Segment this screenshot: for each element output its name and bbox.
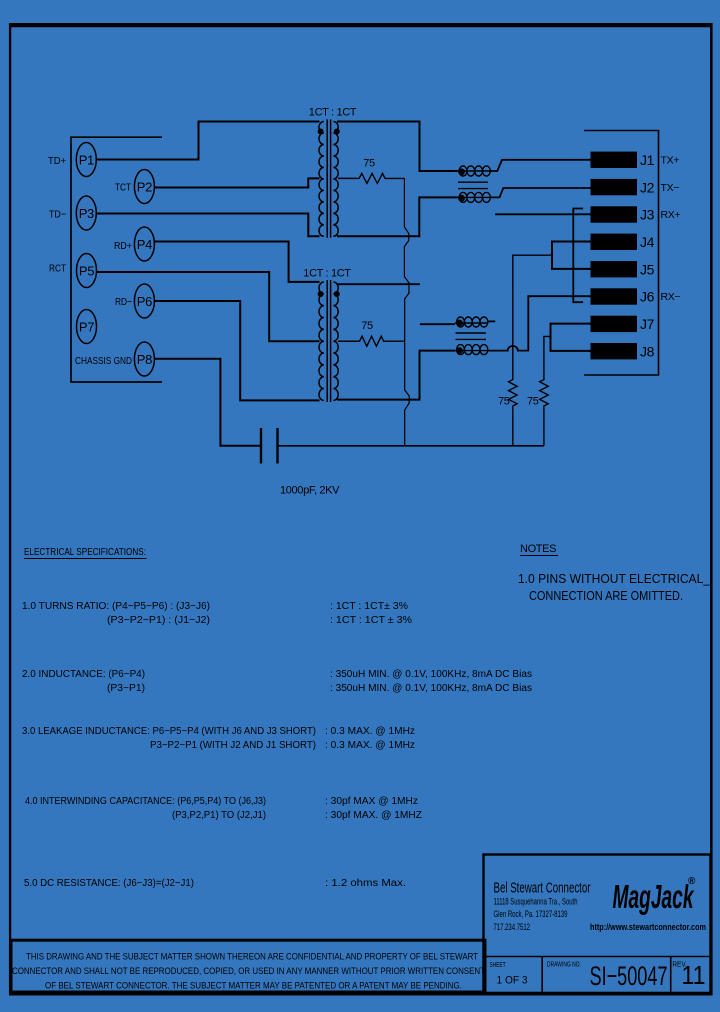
sheet label [490, 960, 528, 987]
phone [494, 922, 531, 932]
svg-text:TX−: TX− [661, 182, 680, 194]
svg-text:4.0 INTERWINDING CAPACITANCE:: 4.0 INTERWINDING CAPACITANCE: (P6,P5,P4)… [25, 796, 266, 807]
resistor R2 75 (J7/J8 termination) [527, 377, 548, 409]
svg-text:P8: P8 [137, 352, 152, 367]
svg-text:TX+: TX+ [661, 155, 680, 167]
logo MagJack [613, 876, 697, 915]
svg-text:Bel Stewart Connector: Bel Stewart Connector [494, 880, 591, 897]
transformer T2 label 1CT : 1CT [303, 268, 351, 280]
address line 2 [494, 909, 568, 919]
wire into choke CM2 top [420, 323, 455, 325]
svg-text:TD−: TD− [49, 209, 66, 221]
svg-text:3.0 LEAKAGE INDUCTANCE: P6−: 3.0 LEAKAGE INDUCTANCE: P6−P5−P4 (WITH J… [22, 726, 316, 737]
wire T2 secondary center tap to resistor [338, 340, 357, 342]
contact J4 [591, 234, 655, 250]
wire J4/J5 node to resistor R1 [513, 255, 552, 377]
svg-text:717.234.7512: 717.234.7512 [494, 922, 531, 932]
svg-text:DRAWING NO.: DRAWING NO. [547, 960, 581, 969]
pin P4 [134, 227, 154, 261]
svg-text:RD+: RD+ [114, 240, 132, 252]
svg-text:http://www.stewartconnector.co: http://www.stewartconnector.com [590, 922, 706, 933]
wire P3 to T1 primary bottom [96, 214, 319, 237]
svg-text:TCT: TCT [115, 182, 131, 194]
svg-text:CONNECTOR AND SHALL NOT BE REP: CONNECTOR AND SHALL NOT BE REPRODUCED, C… [12, 966, 485, 977]
svg-text:1CT : 1CT: 1CT : 1CT [309, 107, 357, 119]
wire P4 to T2 primary top [154, 242, 319, 282]
pin P5 [77, 254, 97, 288]
svg-text:11118 Susquehanna Tra., South: 11118 Susquehanna Tra., South [494, 897, 578, 907]
contact J3 [591, 206, 655, 222]
disclaimer box [11, 940, 485, 992]
svg-text:(P3−P1): (P3−P1) [107, 683, 145, 694]
svg-text:OF BEL STEWART CONNECTOR. THE: OF BEL STEWART CONNECTOR. THE SUBJECT MA… [45, 981, 462, 992]
label TCT [115, 182, 131, 194]
pin P1 [76, 143, 96, 177]
svg-text:ELECTRICAL SPECIFICATIONS:: ELECTRICAL SPECIFICATIONS: [24, 547, 146, 558]
svg-text:SI−50047: SI−50047 [590, 961, 668, 991]
choke CM1 [458, 166, 491, 202]
svg-text:75: 75 [361, 320, 373, 332]
svg-text:CHASSIS GND: CHASSIS GND [75, 355, 132, 367]
svg-text:J4: J4 [640, 234, 655, 250]
svg-text:J1: J1 [640, 152, 655, 168]
url [590, 922, 706, 933]
svg-text:2.0 INDUCTANCE: (P6−P4): 2.0 INDUCTANCE: (P6−P4) [22, 669, 145, 680]
svg-text:75: 75 [527, 396, 539, 408]
svg-text:1.0 PINS WITHOUT ELECTRICAL_: 1.0 PINS WITHOUT ELECTRICAL_ [518, 572, 711, 586]
svg-text:P3−P2−P1 (WITH J2 AND J1 SHORT: P3−P2−P1 (WITH J2 AND J1 SHORT) [150, 740, 316, 751]
label RX- [661, 291, 681, 303]
drawing no label [547, 960, 668, 992]
svg-text:P3: P3 [79, 206, 94, 221]
contact J7 [591, 316, 655, 332]
svg-text:1000pF, 2KV: 1000pF, 2KV [280, 485, 340, 497]
wire T1 secondary bottom to choke CM1 [337, 197, 458, 236]
svg-text:J7: J7 [640, 316, 655, 332]
svg-text:(P3−P2−P1) : (J1−J2): (P3−P2−P1) : (J1−J2) [107, 615, 210, 626]
transformer T1 label 1CT : 1CT [309, 107, 357, 119]
svg-text:1.0 TURNS RATIO: (P4−P5−P6) :: 1.0 TURNS RATIO: (P4−P5−P6) : (J3−J6) [22, 601, 210, 612]
spec 4.0 interwinding capacitance [25, 796, 422, 821]
note 1.0 [518, 572, 711, 603]
contact J5 [591, 261, 655, 277]
heading ELECTRICAL SPECIFICATIONS [24, 547, 147, 559]
svg-text:: 1CT : 1CT ± 3%: : 1CT : 1CT ± 3% [330, 615, 412, 626]
wire T1 secondary center tap to resistor [338, 177, 356, 179]
svg-text:P4: P4 [137, 237, 152, 252]
wire J3 [495, 213, 590, 215]
svg-text:P5: P5 [79, 264, 94, 279]
label RCT [49, 263, 66, 275]
heading NOTES [520, 543, 558, 556]
svg-text:RX−: RX− [661, 291, 681, 303]
wire T2 secondary top (open end) [337, 283, 420, 285]
svg-text:: 30pf MAX @ 1MHz: : 30pf MAX @ 1MHz [325, 796, 418, 807]
svg-text:RX+: RX+ [661, 209, 681, 221]
wire choke CM2 bottom to J6 (hop over vertical) [487, 296, 591, 350]
contact J1 [591, 152, 655, 168]
wire J7-J8 tie [551, 324, 591, 351]
pin P8 [134, 342, 154, 376]
svg-text:TD+: TD+ [48, 155, 66, 167]
pin P2 [134, 170, 154, 204]
wire J7/J8 node to resistor R2 [544, 336, 551, 377]
svg-text:THIS DRAWING AND THE SUBJECT M: THIS DRAWING AND THE SUBJECT MATTER SHOW… [26, 952, 478, 963]
svg-text:J3: J3 [640, 207, 655, 223]
svg-text:NOTES: NOTES [520, 543, 556, 555]
resistor R1 75 (J4/J5 termination) [498, 377, 517, 409]
pin P7 [77, 310, 97, 344]
label TD+ [48, 155, 66, 167]
resistor 75 (T2 termination) [357, 320, 385, 346]
svg-text:P2: P2 [137, 180, 152, 195]
wire choke CM1 top to J1 [490, 160, 591, 171]
svg-text:J8: J8 [640, 343, 655, 359]
wire T2 resistor to node V1 [383, 340, 405, 342]
svg-text:1CT : 1CT: 1CT : 1CT [303, 268, 351, 280]
wire node V1 vertical with jogs [404, 178, 409, 445]
svg-text:1 OF 3: 1 OF 3 [497, 975, 528, 987]
wire P8 to capacitor [154, 359, 260, 446]
transformer T2 [318, 280, 340, 402]
wire T1 resistor to node V1 [387, 177, 404, 179]
svg-text:: 350uH MIN. @ 0.1V, 100KHz,: : 350uH MIN. @ 0.1V, 100KHz, 8mA DC Bias [330, 683, 532, 694]
spec 5.0 dc resistance [24, 878, 406, 889]
wire hook J3/J6 vertical [573, 209, 583, 303]
svg-text:: 0.3 MAX. @ 1MHz: : 0.3 MAX. @ 1MHz [325, 740, 415, 751]
svg-text:®: ® [688, 876, 696, 887]
wire T2 secondary bottom to choke CM2 [337, 351, 455, 400]
transformer T1 [318, 119, 340, 237]
label RD+ [114, 240, 132, 252]
svg-text:: 30pf MAX. @ 1MHZ: : 30pf MAX. @ 1MHZ [325, 810, 422, 821]
svg-text:: 0.3 MAX. @ 1MHz: : 0.3 MAX. @ 1MHz [325, 726, 415, 737]
svg-text:(P3,P2,P1) TO (J2,J1): (P3,P2,P1) TO (J2,J1) [172, 810, 266, 821]
svg-text:: 350uH MIN. @ 0.1V, 100KHz,: : 350uH MIN. @ 0.1V, 100KHz, 8mA DC Bias [330, 669, 532, 680]
wire cap to termination rail [279, 445, 544, 447]
svg-text:75: 75 [498, 396, 510, 408]
address line 1 [494, 897, 578, 907]
svg-text:P7: P7 [79, 320, 94, 335]
svg-text:75: 75 [363, 158, 375, 170]
svg-text:5.0 DC RESISTANCE: (J6−J3)=(J: 5.0 DC RESISTANCE: (J6−J3)=(J2−J1) [24, 878, 194, 889]
pin P6 [134, 284, 154, 318]
label TD- [49, 209, 66, 221]
company name Bel Stewart Connector [494, 880, 591, 897]
svg-text:MagJack: MagJack [613, 878, 695, 915]
svg-text:11: 11 [682, 960, 706, 990]
wire choke CM1 bottom to J2 [490, 188, 591, 197]
svg-text:SHEET: SHEET [490, 960, 506, 969]
wire P1 to T1 primary top [96, 122, 319, 160]
contact J8 [591, 343, 655, 359]
svg-text:RCT: RCT [49, 263, 66, 275]
wire R2 bottom to cap rail [543, 409, 545, 446]
wire P5 to T2 primary center tap [97, 272, 320, 341]
svg-text:P1: P1 [79, 153, 94, 168]
wire R1 bottom to cap rail [512, 409, 514, 446]
label TX- [661, 182, 680, 194]
spec 3.0 leakage inductance [22, 726, 415, 751]
contact J6 [591, 288, 655, 304]
svg-text:RD−: RD− [115, 296, 132, 308]
svg-text:J6: J6 [640, 289, 655, 305]
svg-text:J2: J2 [640, 179, 655, 195]
label RX+ [661, 209, 681, 221]
choke CM2 [455, 317, 488, 355]
spec 1.0 turns ratio [22, 601, 412, 626]
contact J2 [591, 179, 655, 195]
wire P6 to T2 primary bottom [154, 301, 319, 400]
svg-text:CONNECTION ARE OMITTED.: CONNECTION ARE OMITTED. [529, 589, 683, 603]
capacitor C1 1000pF [261, 428, 340, 497]
title block [484, 855, 711, 994]
connector J box [584, 131, 659, 376]
wire T1 secondary top to choke CM1 [337, 122, 458, 172]
label RD- [115, 296, 132, 308]
wire J4-J5 tie [552, 242, 591, 269]
rev label [672, 960, 705, 991]
left connector box [71, 137, 162, 382]
wire choke CM2 top output stub [487, 320, 495, 322]
svg-text:Glen Rock, Pa. 17327-8139: Glen Rock, Pa. 17327-8139 [494, 909, 568, 919]
svg-text:: 1.2 ohms Max.: : 1.2 ohms Max. [325, 878, 406, 889]
label CHASSIS GND [75, 355, 132, 367]
svg-text:: 1CT : 1CT± 3%: : 1CT : 1CT± 3% [330, 601, 408, 612]
resistor 75 (T1 termination) [356, 158, 387, 184]
svg-text:J5: J5 [640, 261, 655, 277]
spec 2.0 inductance [22, 669, 532, 694]
pin P3 [76, 196, 96, 230]
label TX+ [661, 155, 680, 167]
svg-text:P6: P6 [137, 294, 152, 309]
wire P2 to T1 primary center tap [154, 178, 319, 187]
